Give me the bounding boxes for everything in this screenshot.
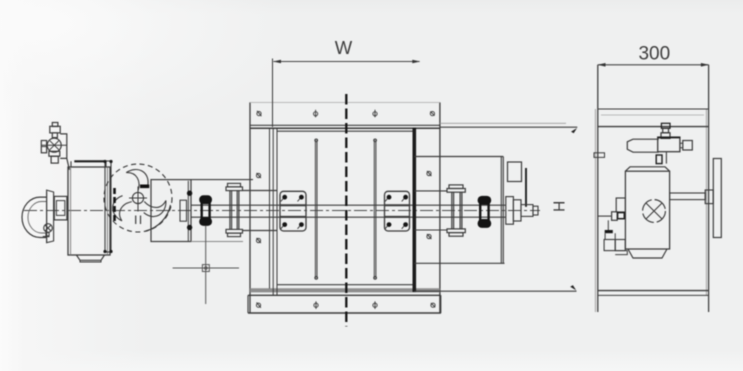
valve bracket [60,134,69,170]
side solenoid [661,123,670,138]
side white box [612,212,618,221]
valve lower box [49,151,60,156]
side dark box [618,213,625,219]
duct bottom lines [598,290,709,292]
inner body thick bar right [412,128,416,293]
flange bolts left band [256,173,261,243]
flange top band lines [250,124,440,126]
side drop line [607,220,609,230]
duct top lines [598,108,709,110]
bearing bracket right [385,191,410,231]
actuator mounting box [414,157,504,264]
centerline down from coupling [205,226,207,305]
W extension line [272,59,274,128]
valve body circle [41,138,67,152]
side main block [658,137,680,152]
flange bolts top band [257,110,435,118]
side right block [683,141,693,151]
gear housing [151,180,191,242]
side left stub [594,153,605,158]
housing bearing [180,200,187,221]
side motor cap [625,167,669,171]
limit switch dome [22,197,47,237]
flange coupling B [447,185,465,236]
flange bolts bottom band [256,301,435,309]
side view frame [598,65,709,312]
horizontal main centerline [24,210,540,212]
side left upper box [616,198,625,212]
connector box [54,196,67,220]
coupling dumbbell A [199,195,212,226]
dome plate [47,190,54,243]
adapter plate [105,161,111,252]
crosshair target [173,265,239,272]
W dimension line [274,61,420,63]
blade rod 2 [374,140,376,280]
handwheel hub [132,192,143,203]
flange bottom band lines [250,288,440,292]
valve left flange [41,141,46,153]
side bold bar [605,230,613,233]
side circle-X [643,200,666,223]
svg-text:H: H [550,201,567,212]
motor bottom base [76,255,104,260]
svg-text:W: W [335,37,353,58]
H extension top [440,126,577,128]
side left link line [598,215,612,217]
motor body [68,167,110,255]
right shaft [414,191,447,230]
coupling dumbbell B [478,196,492,228]
side cylinder [627,139,659,152]
handwheel spokes [108,165,166,221]
vertical centerline [345,94,347,327]
valve bottom stem [51,156,58,163]
dome screw [43,224,53,237]
flange bolts right band [427,171,432,239]
lever arm [525,168,527,207]
inner body verticals left [270,128,278,295]
box top bump [508,162,522,182]
blade rod 1 [315,140,317,280]
side lower square [656,155,662,164]
side motor body [625,171,669,249]
shaft left [191,205,506,217]
housing edge bolts [187,191,192,231]
side handwheel bar [713,159,721,238]
side shaft [670,193,706,200]
inner box top/bottom [277,131,413,285]
300 dimension line [598,64,709,66]
motor M1 top cap [74,160,105,162]
flange coupling A [226,183,243,236]
side motor base [628,249,667,258]
damper flange outline [250,102,440,313]
handwheel dashed rim [104,164,172,232]
bearing bracket left [280,191,306,231]
handwheel bold marks [140,185,149,189]
valve top cap [50,123,60,138]
svg-text:300: 300 [638,43,670,64]
side lower boxes [605,233,615,239]
H extension bottom [414,290,576,292]
